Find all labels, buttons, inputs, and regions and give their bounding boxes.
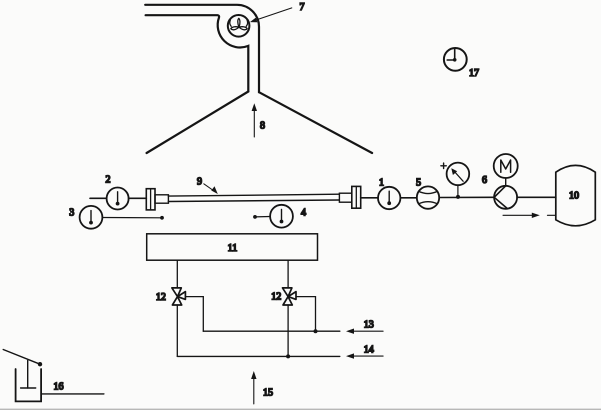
wire: box 11 to right valve <box>287 260 289 288</box>
fan blades <box>230 18 248 29</box>
svg-text:2: 2 <box>106 175 111 186</box>
wire: sensor 2 to flange <box>129 197 147 199</box>
svg-text:17: 17 <box>469 68 479 79</box>
sensor circle 4 <box>270 205 293 228</box>
wire: stub left of sensor 2 <box>90 197 107 199</box>
svg-text:3: 3 <box>69 208 74 219</box>
svg-text:8: 8 <box>260 121 265 132</box>
wire: right valve to line 14 <box>287 305 289 356</box>
tank 16 (open vessel) <box>16 369 41 401</box>
wire: pump to tank 10 <box>517 196 556 198</box>
blower fan housing circle 7 <box>228 15 250 37</box>
svg-text:6: 6 <box>482 175 487 186</box>
wire: box 11 to left valve <box>176 260 178 288</box>
wire: lower duct line into blower volute and left duct wall <box>146 15 249 91</box>
sensor circle 2 <box>107 188 129 210</box>
svg-text:7: 7 <box>300 2 305 13</box>
svg-text:16: 16 <box>54 382 64 393</box>
node: junction on line 13 <box>314 329 318 333</box>
box 11 <box>147 234 318 260</box>
dip tube in tank 16 <box>27 361 29 389</box>
wire: left valve to line 14 <box>176 305 178 356</box>
svg-text:11: 11 <box>228 243 238 254</box>
wire: left valve right port to line 13 <box>186 297 204 332</box>
arrow 13 inlet <box>349 330 384 332</box>
sensor circle 3 <box>80 206 103 229</box>
right reducer <box>339 193 351 202</box>
svg-text:1: 1 <box>379 178 384 189</box>
svg-text:4: 4 <box>301 207 306 218</box>
valve 12 (right, three-way) <box>283 288 297 305</box>
wire: sensor 1 to flow meter 5 <box>400 197 416 199</box>
valve 12 (left, three-way) <box>172 288 186 305</box>
arrow 15 (flow up) <box>253 375 255 404</box>
svg-text:9: 9 <box>197 177 202 188</box>
node: right valve on line 14 <box>286 354 290 358</box>
svg-text:5: 5 <box>416 178 421 189</box>
wire: upper duct outline with corner into right duct wall <box>145 5 259 92</box>
wire: diagonal feed into tank 16 <box>3 350 40 365</box>
pressure gauge with needle <box>447 163 470 186</box>
wire: motor to pump <box>505 178 507 186</box>
wire: sensor 4 tap line <box>255 216 270 218</box>
wire: tank 16 outlet line <box>41 393 104 395</box>
hood right line <box>259 92 372 153</box>
gauge stem wire <box>457 185 459 197</box>
svg-text:12: 12 <box>271 292 281 303</box>
svg-text:15: 15 <box>263 388 273 399</box>
measuring tube 9 <box>168 194 339 196</box>
sensor circle 1 <box>378 187 400 209</box>
arrow 8 (air flow up) <box>253 107 255 138</box>
hood left line <box>147 92 249 154</box>
motor M <box>494 154 518 178</box>
svg-text:12: 12 <box>156 292 166 303</box>
node: gauge junction <box>456 195 460 199</box>
flow arrow below pump outlet <box>503 214 536 216</box>
wire: flange to sensor 1 <box>361 197 378 199</box>
left reducer <box>155 195 168 203</box>
svg-text:14: 14 <box>364 344 374 355</box>
wire: right valve right port to line 13 <box>296 297 315 332</box>
wire: line 13 <box>203 330 339 332</box>
wire: flow meter to pump 6 <box>439 196 494 198</box>
svg-text:10: 10 <box>569 191 579 202</box>
pump 6 <box>494 186 517 209</box>
tank 10 <box>556 165 596 225</box>
svg-text:13: 13 <box>364 319 374 330</box>
scan artifact bottom edge <box>0 408 601 410</box>
flow meter 5 <box>417 186 439 208</box>
wire: sensor 3 tap line <box>102 217 162 219</box>
wire: line 14 <box>177 355 339 357</box>
clock timer 17 <box>444 48 467 71</box>
right flange of tube 9 <box>352 186 361 208</box>
left flange of tube 9 <box>146 189 155 210</box>
arrow 14 inlet <box>349 355 384 357</box>
